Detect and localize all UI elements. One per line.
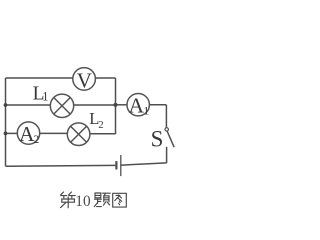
svg-text:2: 2 <box>33 132 39 146</box>
svg-text:1: 1 <box>42 89 48 103</box>
svg-text:A: A <box>129 94 145 118</box>
svg-text:V: V <box>77 68 92 92</box>
svg-text:1: 1 <box>143 104 149 118</box>
svg-text:2: 2 <box>98 120 103 131</box>
svg-text:S: S <box>151 126 164 151</box>
svg-text:10: 10 <box>75 193 91 210</box>
